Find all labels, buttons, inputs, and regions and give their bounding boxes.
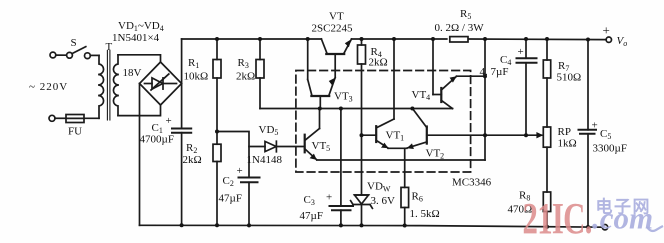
capacitor C2 47uF: [239, 178, 260, 226]
diode VD5 1N4148: [249, 141, 305, 152]
svg-text:+: +: [326, 192, 332, 204]
bridge rectifier VD1~VD4 diamond: [140, 62, 182, 105]
top rail left segment: [182, 38, 322, 40]
resistor R1 10k: [213, 39, 221, 144]
svg-text:10kΩ: 10kΩ: [184, 71, 209, 83]
terminal bottom output: [602, 225, 607, 230]
svg-text:+: +: [237, 165, 243, 177]
capacitor C5 3300uF: [579, 40, 597, 228]
switch S: [50, 47, 90, 59]
svg-text:FU: FU: [68, 126, 82, 138]
transistor VT2: [407, 109, 427, 149]
wire switch to transformer primary: [90, 54, 99, 56]
svg-text:MC3346: MC3346: [452, 177, 492, 189]
fuse FU: [49, 115, 99, 123]
wire bridge minus (left point) down to bottom rail: [139, 84, 141, 226]
transistor VT4: [412, 39, 485, 109]
transformer core: [107, 51, 110, 121]
resistor R5 0.2 ohm: [450, 37, 468, 42]
wire bridge plus riser to top rail and down to C1: [181, 39, 183, 128]
wire secondary bottom to bridge bottom: [118, 105, 161, 116]
resistor R2 2k: [213, 144, 221, 225]
svg-text:1kΩ: 1kΩ: [558, 138, 577, 150]
svg-text:4700µF: 4700µF: [140, 134, 174, 146]
svg-text:VT: VT: [329, 11, 344, 23]
VT2 base feedback wire: [427, 134, 526, 136]
svg-text:+: +: [166, 115, 172, 127]
capacitor C3 47uF: [330, 109, 354, 226]
VT5 emitter wire to output sense: [317, 159, 485, 161]
svg-text:3300µF: 3300µF: [593, 143, 627, 155]
wire secondary top to bridge top: [118, 55, 161, 62]
svg-text:3. 6V: 3. 6V: [371, 195, 396, 207]
svg-text:VT1: VT1: [386, 130, 405, 143]
svg-text:R1: R1: [188, 57, 199, 70]
svg-text:VD5: VD5: [259, 124, 279, 137]
svg-text:2kΩ: 2kΩ: [369, 57, 388, 69]
svg-text:4. 7µF: 4. 7µF: [480, 66, 509, 78]
svg-text:R5: R5: [460, 8, 471, 21]
transformer T secondary winding: [113, 55, 118, 116]
svg-text:21IC.: 21IC.: [523, 195, 592, 243]
svg-text:2SC2245: 2SC2245: [312, 23, 353, 35]
svg-text:R3: R3: [238, 57, 249, 70]
svg-text:+: +: [592, 120, 598, 132]
svg-text:1N4148: 1N4148: [247, 154, 283, 166]
resistor R3 2k: [256, 39, 264, 109]
svg-text:.com: .com: [592, 201, 653, 236]
svg-text:0. 2Ω / 3W: 0. 2Ω / 3W: [435, 22, 485, 34]
svg-text:18V: 18V: [123, 67, 142, 79]
svg-text:VT4: VT4: [412, 89, 431, 102]
transformer T primary winding: [99, 55, 104, 118]
svg-text:VT2: VT2: [426, 148, 445, 161]
svg-text:Vo: Vo: [617, 35, 628, 48]
resistor R4 2k: [358, 39, 366, 195]
svg-text:S: S: [71, 37, 77, 49]
svg-text:+: +: [603, 23, 610, 38]
top rail right segment: [352, 38, 447, 40]
transistor VT 2SC2245: [321, 39, 351, 78]
svg-text:C2: C2: [223, 175, 234, 188]
resistor R7 510: [543, 39, 550, 127]
transistor VT3: [308, 39, 336, 109]
svg-text:2kΩ: 2kΩ: [236, 71, 255, 83]
svg-text:2kΩ: 2kΩ: [183, 154, 202, 166]
svg-text:VT5: VT5: [312, 140, 331, 153]
svg-text:C5: C5: [600, 128, 611, 141]
svg-text:RP: RP: [558, 126, 571, 138]
zener VDW 3.6V: [351, 195, 373, 225]
wire R1R2 junction to VD5/C2: [217, 132, 249, 178]
bridge inner diode symbol: [145, 74, 177, 90]
svg-text:510Ω: 510Ω: [557, 72, 582, 84]
svg-text:47µF: 47µF: [300, 210, 323, 222]
svg-text:+: +: [518, 46, 524, 58]
potentiometer RP 1k: [526, 127, 551, 192]
capacitor C4 4.7uF: [517, 39, 537, 135]
IC MC3346 dashed box: [296, 71, 471, 173]
bottom rail: [140, 225, 603, 227]
svg-text:R6: R6: [412, 191, 423, 204]
svg-text:~ 220V: ~ 220V: [29, 81, 68, 93]
svg-text:47µF: 47µF: [219, 193, 242, 205]
svg-text:1N5401×4: 1N5401×4: [112, 32, 160, 44]
transistor VT1: [362, 39, 395, 148]
svg-text:VT3: VT3: [334, 91, 353, 104]
common emitter bar and R6 riser: [388, 148, 407, 187]
resistor R6 1.5k: [401, 187, 409, 225]
error node wire: [260, 108, 412, 110]
terminal +Vo: [606, 37, 611, 42]
svg-text:C3: C3: [304, 194, 315, 207]
transistor VT5: [305, 109, 320, 160]
capacitor C1 4700uF: [172, 129, 191, 226]
output sense vertical wire: [484, 39, 486, 160]
svg-text:1. 5kΩ: 1. 5kΩ: [410, 208, 440, 220]
svg-text:VDW: VDW: [367, 181, 391, 194]
resistor R8 470: [543, 192, 550, 227]
